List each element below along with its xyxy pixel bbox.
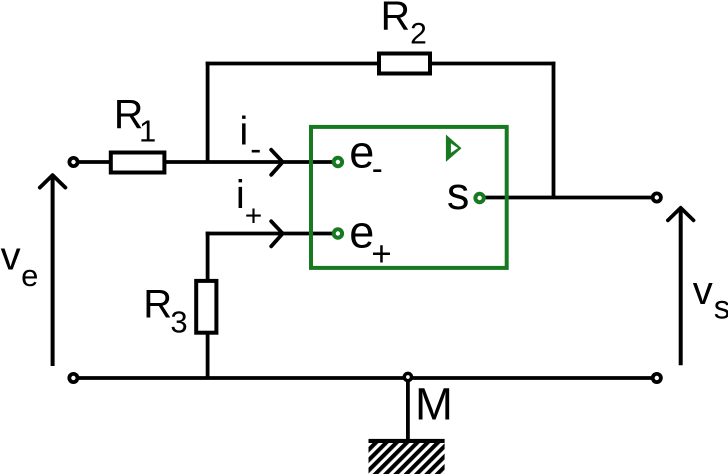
svg-text:s: s — [714, 288, 728, 325]
voltage arrow ve head — [40, 175, 66, 188]
svg-text:2: 2 — [410, 18, 427, 51]
label i- — [239, 109, 261, 167]
ground hatched earth block — [369, 443, 445, 474]
pin e- terminal circle — [334, 158, 342, 166]
resistor R3 — [196, 281, 216, 333]
label ve — [1, 235, 39, 293]
ground top bar — [369, 439, 445, 443]
wire: e+ row horizontal into e+ pin — [206, 232, 338, 236]
label vs — [693, 269, 728, 325]
terminal: input top-left — [69, 158, 77, 166]
svg-text:i: i — [236, 173, 245, 217]
label R3 — [143, 283, 187, 340]
label i+ — [236, 173, 262, 232]
label s pin name — [447, 168, 470, 219]
svg-text:e: e — [21, 258, 38, 293]
current arrow i+ head — [271, 221, 283, 246]
pin e+ terminal circle — [334, 229, 342, 237]
svg-text:+: + — [245, 200, 263, 233]
terminal: output top-right — [653, 193, 661, 201]
svg-text:v: v — [1, 235, 21, 279]
label e+ pin name — [349, 206, 392, 273]
svg-text:s: s — [447, 168, 470, 219]
terminal: bottom-right — [653, 374, 661, 382]
wire: right feedback vertical from top wire down to output wire — [552, 62, 556, 198]
wire: top feedback horizontal (R2 row) — [206, 62, 556, 66]
op-amp U1 green box — [311, 127, 507, 268]
wire: output row from s pin to right terminal — [480, 196, 657, 200]
label e- pin name — [349, 126, 383, 186]
wire: left feedback vertical from top wire down to R1 output node — [206, 62, 210, 162]
wire: input row from left terminal through R1 to e- pin — [74, 160, 338, 164]
svg-text:R: R — [381, 0, 411, 38]
resistor R1 — [111, 153, 165, 173]
wire: ground stem below node M — [406, 376, 410, 441]
wire: from R3 bottom down to ground rail — [206, 332, 210, 378]
current arrow i- head — [271, 150, 283, 175]
wire: vertical from e+ row corner down to R3 top — [206, 232, 210, 281]
node M junction circle — [404, 373, 411, 380]
svg-text:M: M — [415, 378, 453, 429]
svg-text:3: 3 — [170, 305, 187, 340]
pin s terminal circle — [475, 194, 483, 202]
svg-text:-: - — [250, 130, 261, 167]
svg-text:v: v — [693, 269, 713, 313]
terminal: bottom-left — [69, 374, 77, 382]
svg-text:e: e — [349, 126, 374, 177]
op-amp amplifier triangle symbol — [446, 135, 462, 162]
svg-text:R: R — [143, 283, 172, 327]
svg-text:+: + — [371, 235, 391, 274]
voltage arrow vs head — [668, 208, 694, 221]
label M node name — [415, 378, 453, 429]
svg-text:-: - — [372, 149, 383, 186]
wire: bottom ground rail — [73, 376, 656, 380]
label R2 — [381, 0, 427, 51]
svg-text:i: i — [239, 109, 248, 153]
label R1 — [114, 91, 157, 148]
svg-text:1: 1 — [139, 114, 156, 149]
resistor R2 — [379, 54, 430, 74]
voltage arrow ve stem — [51, 177, 55, 366]
voltage arrow vs stem — [679, 210, 683, 365]
